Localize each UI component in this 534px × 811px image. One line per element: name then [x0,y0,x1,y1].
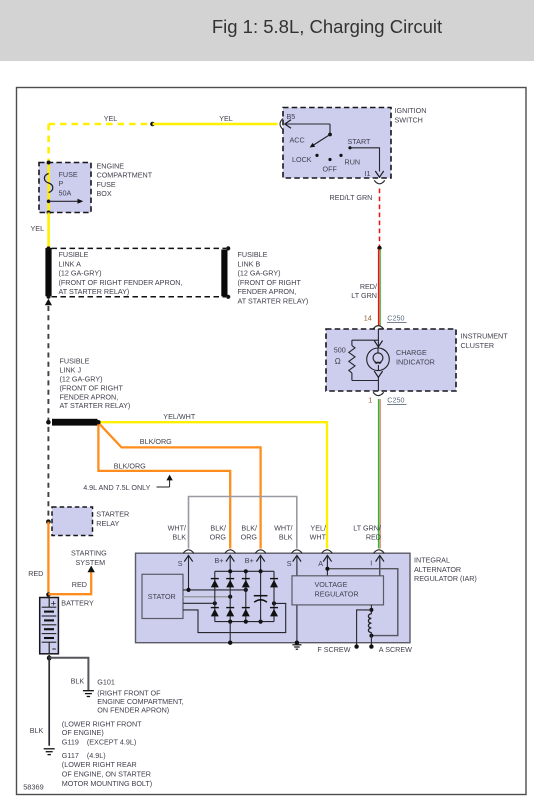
integral alternator regulator (IAR) [136,553,411,643]
splice junction on YEL wire [150,122,155,127]
instrument cluster [326,329,456,391]
fusible link B [221,250,227,297]
svg-text:CHARGE: CHARGE [396,348,427,357]
wire RED/LT GRN to connector C250 pin 14 [378,249,380,326]
wire RED starter relay to battery [47,522,49,597]
engine compartment fuse box [39,163,91,213]
svg-text:CLUSTER: CLUSTER [461,341,495,350]
stator phase wire 1 [183,589,246,591]
svg-text:C250: C250 [387,396,404,405]
svg-text:YEL: YEL [31,224,45,233]
svg-text:ORG: ORG [210,533,227,542]
svg-text:4.9L AND 7.5L ONLY: 4.9L AND 7.5L ONLY [83,483,150,492]
svg-text:S: S [287,559,292,568]
svg-text:STARTING: STARTING [71,549,107,558]
case ground junction [295,641,299,645]
switch contacts ACC / LOCK / OFF / RUN / START [315,154,318,157]
svg-text:(FRONT OF RIGHT: (FRONT OF RIGHT [60,383,124,392]
svg-text:G117 (4.9L): G117 (4.9L) [62,751,106,760]
wire (BLK dashed) link A down to starter relay [47,306,49,521]
wire bridge to case ground [229,622,231,643]
svg-text:FENDER APRON,: FENDER APRON, [238,287,297,296]
svg-text:RELAY: RELAY [96,519,119,528]
svg-text:P: P [59,179,64,188]
svg-text:BLK: BLK [71,676,85,685]
wire RED to starting system [48,572,91,594]
field coil [368,614,371,633]
svg-text:FUSE: FUSE [97,180,116,189]
svg-text:INSTRUMENT: INSTRUMENT [461,332,509,341]
wire YEL (dashed) from fuse P to splice [49,123,153,126]
svg-text:(12 GA-GRY): (12 GA-GRY) [60,375,103,384]
svg-text:FENDER APRON,: FENDER APRON, [60,392,119,401]
svg-text:WHT: WHT [310,533,327,542]
svg-text:BLK: BLK [30,726,44,735]
ground G101 [83,690,94,692]
wire coil to A screw [370,632,372,646]
svg-text:YEL: YEL [219,114,233,123]
svg-text:INTEGRAL: INTEGRAL [414,556,450,565]
svg-text:INDICATOR: INDICATOR [396,357,435,366]
svg-text:VOLTAGE: VOLTAGE [315,580,348,589]
wire link A to link B (bottom) [52,296,227,298]
capacitor [260,571,262,621]
wire regulator to F screw [370,605,372,614]
junction above battery [46,592,50,596]
svg-text:YEL: YEL [104,114,118,123]
wire BLK/ORG link J to alternator B+ (left) [98,423,230,548]
svg-text:B+: B+ [245,556,254,565]
svg-text:G119 (EXCEPT 4.9L): G119 (EXCEPT 4.9L) [62,737,136,746]
svg-text:LT GRN/: LT GRN/ [353,523,381,532]
svg-text:BLK/: BLK/ [241,523,257,532]
svg-text:FUSIBLE: FUSIBLE [238,250,268,259]
svg-text:S: S [178,559,183,568]
svg-text:AT STARTER RELAY): AT STARTER RELAY) [59,287,130,296]
svg-text:BLK: BLK [279,533,293,542]
svg-text:BLK/ORG: BLK/ORG [140,437,172,446]
junction at starter relay [46,519,51,524]
svg-text:BATTERY: BATTERY [61,598,94,607]
A screw terminal [369,644,373,648]
svg-text:RUN: RUN [345,158,361,167]
junction at link J right end [96,420,100,424]
battery [40,598,59,654]
svg-text:YEL/WHT: YEL/WHT [163,412,196,421]
svg-text:RED: RED [28,569,43,578]
wire BLK battery to ground G101 [49,658,88,691]
terminal B+ (right) [256,555,264,561]
svg-text:OF ENGINE): OF ENGINE) [62,728,104,737]
svg-text:RED/: RED/ [360,282,377,291]
svg-text:Fig 1: 5.8L, Charging Circuit: Fig 1: 5.8L, Charging Circuit [212,16,442,37]
wire A to field coil [327,569,397,636]
rectifier diodes [211,578,219,580]
svg-text:ORG: ORG [241,533,258,542]
svg-text:IGNITION: IGNITION [395,106,427,115]
terminal S (left) [184,555,192,561]
junction on RED/LT GRN wire [377,246,381,250]
wire YEL splice to ignition switch pin B5 [153,123,278,126]
connector pin B5 [280,119,283,130]
svg-text:B5: B5 [287,112,296,121]
wire from START contact to pin I1 [350,148,380,172]
terminal S (right) to case ground [293,555,301,561]
fuse P 50A [44,174,52,193]
svg-text:LINK A: LINK A [59,259,82,268]
svg-text:50A: 50A [59,188,72,197]
stator [142,574,183,618]
svg-text:RED/LT GRN: RED/LT GRN [330,193,373,202]
junction below battery [47,656,52,661]
svg-text:MOTOR MOUNTING BOLT): MOTOR MOUNTING BOLT) [62,779,152,788]
stator phase wire 3 [183,602,215,604]
svg-text:I: I [370,559,372,568]
rectifier bridge rails [215,570,274,572]
wire BLK battery to ground G119/G117 [48,655,50,746]
svg-text:LOCK: LOCK [292,155,312,164]
svg-text:G101: G101 [97,678,115,687]
connector pin I1 [374,180,385,183]
ignition switch [283,108,391,179]
charge indicator lamp [367,348,390,371]
terminal A [323,555,331,561]
svg-text:SWITCH: SWITCH [395,115,423,124]
wire to charge indicator [377,329,379,348]
svg-text:BLK/: BLK/ [210,523,226,532]
svg-text:STARTER: STARTER [96,510,129,519]
svg-text:LT GRN: LT GRN [351,291,377,300]
connector C250 (bottom) [373,392,384,395]
svg-text:ACC: ACC [290,136,305,145]
wire link A to link B (top) [52,247,227,249]
svg-text:FUSIBLE: FUSIBLE [59,250,89,259]
svg-text:1: 1 [368,396,372,405]
ignition switch wiper arm [285,123,330,125]
svg-text:(12 GA-GRY): (12 GA-GRY) [59,269,102,278]
svg-text:REGULATOR: REGULATOR [315,589,359,598]
svg-text:WHT/: WHT/ [168,523,186,532]
F screw terminal [354,644,358,648]
voltage regulator [292,576,384,605]
current arrow below link A [45,299,52,305]
svg-text:F SCREW: F SCREW [317,645,350,654]
svg-text:BOX: BOX [97,189,112,198]
svg-text:OF ENGINE, ON STARTER: OF ENGINE, ON STARTER [62,770,151,779]
svg-text:C250: C250 [387,314,404,323]
svg-text:500: 500 [334,346,346,355]
terminal I [376,555,384,561]
junction at link J left end [46,420,51,425]
svg-text:ENGINE: ENGINE [97,161,125,170]
resistor 500 ohm (parallel) [352,339,379,341]
wire YEL fuse box to fusible link A [47,213,50,250]
svg-text:(12 GA-GRY): (12 GA-GRY) [238,269,281,278]
svg-text:A: A [318,559,323,568]
svg-text:RED: RED [366,533,381,542]
svg-text:(FRONT OF RIGHT: (FRONT OF RIGHT [238,278,302,287]
svg-text:I1: I1 [365,169,371,178]
wire BLK/ORG link J to alternator B+ (right) [99,423,261,548]
ground (alternator case) [292,644,301,646]
svg-text:58369: 58369 [23,782,44,791]
svg-text:OFF: OFF [323,164,338,173]
wire WHT/BLK loop joining both S terminals [189,497,297,549]
svg-text:ON FENDER APRON): ON FENDER APRON) [97,706,169,715]
wire RED/LT GRN (dashed) from ignition switch I1 [379,189,381,247]
wire LT GRN/RED cluster to alternator I [378,399,380,549]
fusible link A [45,248,51,296]
svg-text:SYSTEM: SYSTEM [76,558,106,567]
svg-text:B+: B+ [215,556,224,565]
svg-text:(FRONT OF RIGHT FENDER APRON,: (FRONT OF RIGHT FENDER APRON, [59,278,183,287]
svg-text:REGULATOR (IAR): REGULATOR (IAR) [414,574,477,583]
svg-text:A SCREW: A SCREW [379,645,412,654]
svg-text:BLK: BLK [172,533,186,542]
terminal B+ (left) [226,555,234,561]
svg-text:FUSE: FUSE [59,170,78,179]
svg-text:ALTERNATOR: ALTERNATOR [414,565,461,574]
stator phase wire 4 [183,603,286,632]
svg-text:FUSIBLE: FUSIBLE [60,357,90,366]
current arrow inside fuse box [47,200,51,204]
svg-text:START: START [348,137,372,146]
ground G119 / G117 [44,748,55,750]
svg-text:STATOR: STATOR [148,592,176,601]
svg-text:RED: RED [72,580,87,589]
connectors on alternator: S, B+, B+, S, A, I [183,550,194,553]
wire YEL/WHT link J to alternator A [98,422,327,548]
svg-text:WHT/: WHT/ [274,523,292,532]
svg-text:LINK J: LINK J [60,366,82,375]
wire YEL through fuse box [47,163,50,213]
stator phase wire 2 [183,596,230,598]
svg-text:AT STARTER RELAY): AT STARTER RELAY) [60,401,131,410]
svg-text:AT STARTER RELAY): AT STARTER RELAY) [238,297,309,306]
svg-text:BLK/ORG: BLK/ORG [114,461,146,470]
starter relay [52,507,93,536]
svg-text:LINK B: LINK B [238,259,261,268]
wire lamp to connector C250 pin 1 [374,371,382,377]
svg-text:Ω: Ω [335,357,341,366]
svg-text:14: 14 [364,314,372,323]
svg-text:(LOWER RIGHT REAR: (LOWER RIGHT REAR [62,760,137,769]
svg-text:COMPARTMENT: COMPARTMENT [97,171,153,180]
svg-text:YEL/: YEL/ [310,523,326,532]
